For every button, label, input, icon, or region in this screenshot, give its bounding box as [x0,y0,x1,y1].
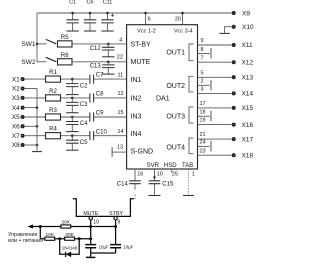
node A-branch [39,225,42,228]
pin 14 label [118,129,124,135]
bracket OUT1 [189,44,194,61]
svg-text:R6: R6 [61,53,69,59]
IC bottom fragment (MUTE/STBY detail) [73,199,134,218]
terminal X1 [12,76,24,83]
svg-text:9: 9 [201,38,204,44]
svg-text:или + питания: или + питания [8,238,43,244]
wire STBY drop [115,220,117,245]
ground (X10) [219,32,229,34]
pin 18 stub [198,110,212,122]
terminal X3 [12,95,24,102]
svg-text:8: 8 [201,47,204,53]
terminal X11 [233,42,253,49]
resistor R1 [46,70,61,82]
svg-text:SVR: SVR [147,163,160,169]
capacitor C5 [66,134,88,150]
terminal X7 [12,133,24,140]
svg-text:HSD: HSD [164,163,177,169]
capacitor C15 [149,181,174,188]
pin MUTE circle [89,217,99,226]
bracket OUT4 [189,138,194,154]
svg-text:5: 5 [201,70,204,76]
wire X7 row [25,135,127,137]
capacitor C8 [90,92,104,103]
capacitor C6 [84,0,96,31]
wire pin 21 to X17 [198,132,232,139]
svg-text:C12: C12 [90,46,102,52]
terminal X2 [12,86,24,93]
svg-text:X3: X3 [12,95,20,102]
svg-text:C8: C8 [96,92,104,98]
svg-text:ST-BY: ST-BY [131,42,152,49]
svg-text:MUTE: MUTE [131,59,151,66]
ground (control) [86,253,95,257]
ground (input bus) [32,151,42,153]
diode 1N4148 [62,246,78,257]
svg-text:C9: C9 [96,111,104,117]
svg-text:X2: X2 [12,86,20,93]
terminal X18 [233,152,254,159]
svg-text:15: 15 [118,110,124,116]
svg-text:2: 2 [201,79,204,85]
svg-text:13: 13 [117,145,123,151]
node A-MUTE [89,225,92,228]
svg-text:X5: X5 [12,114,20,121]
pin 22 label [117,54,123,60]
node B-left [58,237,61,240]
svg-text:C1: C1 [69,0,76,6]
capacitor 10uF (STBY) [110,244,134,253]
svg-text:X9: X9 [242,10,250,17]
bracket OUT2 [189,76,194,92]
wire X8 to ground bus [25,144,39,147]
svg-text:7: 7 [201,55,204,61]
wire pin 19 to X16 [198,118,232,125]
svg-text:X13: X13 [242,75,254,82]
svg-text:10: 10 [157,172,163,178]
svg-text:3: 3 [201,87,204,93]
wire pin 16 SVR [135,169,143,190]
terminal X6 [12,124,24,131]
svg-text:OUT4: OUT4 [166,144,185,151]
pin 12 label [118,91,124,97]
svg-text:R5: R5 [61,35,69,41]
wire R5 to pin 4 [72,43,127,45]
svg-text:C11: C11 [103,0,113,6]
wire control row B [40,238,90,240]
resistor R6 [58,53,73,65]
svg-text:X4: X4 [12,105,20,112]
svg-text:X15: X15 [242,105,254,112]
svg-text:30K: 30K [65,232,74,238]
svg-text:R3: R3 [49,108,57,114]
svg-text:10: 10 [93,219,99,225]
terminal X8 [12,142,24,149]
resistor 20K [61,220,71,228]
svg-text:C2: C2 [80,83,88,89]
wire diode branch [60,239,79,255]
svg-text:X16: X16 [242,122,254,129]
capacitor C3 [66,97,88,113]
wire pin 7 to X12 [198,55,232,62]
pin 25 stub [172,169,178,178]
svg-text:X12: X12 [242,59,254,66]
pin 8 stub [198,47,212,59]
svg-text:1N4148: 1N4148 [62,246,78,251]
capacitor C12 [90,43,115,57]
wire pin 3 to X14 [198,87,232,94]
svg-text:12: 12 [118,91,124,97]
pin 24 stub [198,140,212,152]
capacitor 10uF (MUTE) [85,244,109,253]
wire input ground bus [36,89,38,151]
svg-text:19: 19 [200,118,206,124]
svg-text:1: 1 [192,172,195,178]
svg-text:C6: C6 [86,0,93,6]
arrow control input [28,224,33,228]
wire X1 row [25,78,127,80]
svg-text:C14: C14 [117,182,129,188]
pin 4 label [119,37,122,43]
svg-text:X18: X18 [242,152,254,159]
svg-text:X7: X7 [12,133,20,140]
terminal X15 [233,105,254,112]
svg-text:X1: X1 [12,76,20,83]
svg-text:IN2: IN2 [131,95,142,102]
wire R6 to pin 22 [72,61,127,63]
wire X6 to ground bus [25,125,39,128]
capacitor C9 [90,111,104,122]
svg-text:SW2: SW2 [21,59,35,66]
node B-MUTE [89,237,92,240]
svg-text:R4: R4 [49,127,57,133]
ground (pin 1) [183,195,194,197]
resistor 10K [45,232,55,241]
capacitor C13 [90,61,115,75]
wire pin 17 to X15 [198,101,232,108]
svg-text:14: 14 [118,129,124,135]
wire X4 to ground bus [25,106,39,109]
svg-text:9: 9 [117,219,120,225]
svg-text:C15: C15 [162,182,174,188]
pin 15 label [118,110,124,116]
wire pin 9 to X11 [198,38,232,45]
svg-text:SW1: SW1 [21,41,35,48]
svg-text:IN4: IN4 [131,131,142,138]
svg-text:X11: X11 [242,42,253,49]
svg-text:X8: X8 [12,142,20,149]
capacitor C1 [66,0,78,31]
wire pin 23 to X18 [198,148,232,155]
wire left drop to switches [36,13,38,62]
resistor R2 [46,89,61,101]
IC DA1 TDA7386 box [127,25,198,169]
svg-text:Vcc 1-2: Vcc 1-2 [137,29,156,35]
svg-text:C3: C3 [80,102,88,108]
wire pin 5 to X13 [198,70,232,77]
terminal X10 [233,24,254,31]
svg-text:X14: X14 [242,91,254,98]
svg-text:C10: C10 [96,129,108,135]
svg-text:DA1: DA1 [156,95,170,102]
wire pin 10 HSD [153,169,163,195]
svg-text:X6: X6 [12,124,20,131]
capacitor C14 [117,181,141,199]
node A-STBY [114,225,117,228]
wire X5 row [25,116,127,118]
wire top supply rail [37,12,233,14]
resistor R4 [46,127,61,139]
terminal X9 [233,10,251,17]
pin 2 stub [198,79,212,91]
capacitor C7 [90,73,104,84]
svg-text:18: 18 [200,110,206,116]
capacitor C4 [66,116,88,132]
pin STBY circle [114,217,121,226]
bracket OUT3 [189,107,194,123]
terminal X12 [233,59,254,66]
svg-text:10µF: 10µF [99,244,109,249]
terminal X5 [12,114,24,121]
wire X10 to ground [225,27,232,33]
resistor R3 [46,108,61,120]
svg-text:4: 4 [119,37,122,43]
svg-text:C5: C5 [80,140,88,146]
svg-text:21: 21 [200,132,206,138]
svg-text:TAB: TAB [182,163,193,169]
svg-text:X10: X10 [242,24,254,31]
svg-text:IN3: IN3 [131,113,142,120]
terminal X14 [233,91,254,98]
svg-text:23: 23 [200,148,206,154]
svg-text:S-GND: S-GND [131,149,154,156]
wire control row A [30,226,116,228]
svg-text:24: 24 [200,140,206,146]
svg-text:22: 22 [117,54,123,60]
node B-right [78,237,81,240]
terminal X13 [233,75,254,82]
svg-text:10µF: 10µF [123,244,133,249]
svg-text:25: 25 [172,172,178,178]
svg-text:OUT2: OUT2 [166,83,185,90]
resistor R5 [58,35,73,47]
svg-text:C4: C4 [80,121,88,127]
svg-text:20K: 20K [61,220,70,226]
svg-text:C13: C13 [90,64,102,70]
svg-text:OUT3: OUT3 [166,114,185,121]
ground (pin 10) [149,195,161,197]
svg-text:20: 20 [175,17,181,23]
svg-text:6: 6 [148,17,151,23]
svg-text:17: 17 [200,101,206,107]
capacitor C2 [66,78,88,95]
wire pin 20 Vcc [175,12,184,25]
svg-text:16: 16 [137,172,143,178]
svg-text:IN1: IN1 [131,77,142,84]
svg-text:OUT1: OUT1 [166,49,185,56]
terminal X17 [233,136,254,143]
switch SW1 [21,39,56,48]
terminal X16 [233,122,254,129]
terminal X4 [12,105,24,112]
control label text [8,232,43,244]
ground (pin 13) [111,147,113,157]
svg-text:11: 11 [118,72,124,78]
svg-text:R2: R2 [49,89,57,95]
wire pin 6 Vcc [144,12,150,25]
svg-text:X17: X17 [242,136,254,143]
pin 11 label [118,72,124,78]
capacitor C11 (polarized) [101,0,114,31]
svg-text:C7: C7 [96,73,104,79]
wire caps common [91,252,116,254]
capacitor C10 [90,129,108,140]
svg-text:R1: R1 [49,70,57,76]
svg-text:10K: 10K [45,232,54,238]
wire pin 13 S-GND [113,145,127,153]
wire X2 to ground bus [25,88,37,90]
wire pin 1 TAB [188,169,194,195]
svg-text:Vcc 3-4: Vcc 3-4 [174,29,193,35]
switch SW2 [21,57,56,66]
wire branch to row B [39,227,41,239]
resistor 30K [65,232,75,241]
wire X3 row [25,97,127,99]
wire MUTE drop [90,220,92,245]
